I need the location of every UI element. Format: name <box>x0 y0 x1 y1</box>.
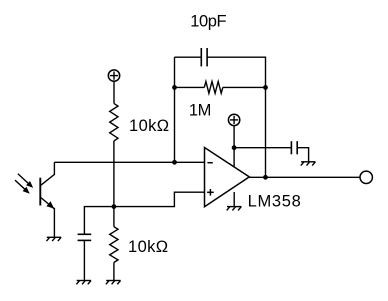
resistor R3 1M <box>204 82 223 94</box>
output terminal <box>360 171 372 183</box>
ground (emitter) <box>47 237 62 241</box>
transistor Q1 emitter arrowhead <box>46 201 54 208</box>
node output junction dot <box>263 175 268 180</box>
op-amp U1 LM358 triangle <box>205 148 250 207</box>
resistor R1 10k (upper divider) <box>110 103 118 140</box>
wire R2 to ground <box>113 263 115 281</box>
ground (C3) <box>301 162 316 166</box>
node divider junction dot <box>112 204 117 209</box>
wire C3 to ground <box>297 148 308 162</box>
transistor Q1 phototransistor base bar <box>39 178 41 206</box>
light arrow 1 <box>18 174 30 185</box>
wire 1M left lead <box>175 86 205 88</box>
wire op-amp output <box>249 176 360 178</box>
wire left feedback rail <box>174 57 176 162</box>
svg-text:10kΩ: 10kΩ <box>129 117 170 135</box>
op-amp V- pin <box>233 192 235 207</box>
resistor R2 10k (lower divider) <box>110 227 118 263</box>
ground (R2) <box>106 281 121 285</box>
supply +V symbol (divider) <box>108 70 119 81</box>
wire supply to R1 <box>113 81 115 103</box>
svg-text:10kΩ: 10kΩ <box>128 238 169 256</box>
wire 1M right lead <box>223 86 266 88</box>
capacitor C2 10pF <box>201 48 207 66</box>
wire V+ to decoupling capacitor C3 <box>234 147 291 149</box>
wire node to op-amp non-inverting input <box>114 192 205 206</box>
supply +V symbol (op-amp) <box>228 114 239 125</box>
light arrow 2 <box>15 180 26 190</box>
ground (op-amp V-) <box>227 207 242 211</box>
wire node to R2 <box>113 207 115 227</box>
svg-text:1M: 1M <box>189 102 211 120</box>
op-amp V+ pin <box>233 126 235 167</box>
node A: left feedback rail junction dot on inverting bus <box>172 160 177 165</box>
op-amp minus label <box>207 162 212 164</box>
wire: inverting input bus y=162.3 from phototransistor collector to op-amp <box>54 161 204 163</box>
transistor Q1 emitter lead <box>41 198 55 238</box>
ground (C1) <box>76 281 91 285</box>
node dot right end of 1M <box>263 85 268 90</box>
wire R1 to node (crosses inverting bus, no junction) <box>113 141 115 207</box>
transistor Q1 collector lead <box>41 162 55 185</box>
wire node to capacitor C1 <box>84 207 114 235</box>
svg-text:10pF: 10pF <box>190 12 226 30</box>
wire C2 to right rail <box>207 57 265 87</box>
wire C1 to ground <box>83 240 85 280</box>
svg-text:LM358: LM358 <box>248 193 302 211</box>
capacitor C3 decoupling <box>291 141 297 154</box>
capacitor C1 <box>78 234 92 240</box>
op-amp plus label <box>207 189 214 196</box>
wire top feedback to C2 <box>175 56 202 58</box>
node V+ junction dot <box>232 145 237 150</box>
node dot left end of 1M <box>172 85 177 90</box>
wire right feedback rail to output <box>265 87 267 177</box>
